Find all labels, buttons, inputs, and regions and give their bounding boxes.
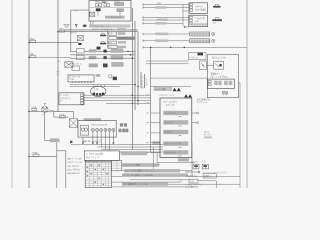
relay R4 bbox=[69, 119, 77, 127]
label out1 bbox=[122, 163, 159, 167]
connector circle 1 bbox=[212, 32, 215, 35]
meter unit box bbox=[208, 54, 239, 97]
wire b3 bbox=[130, 179, 189, 181]
wire into JB bbox=[71, 9, 89, 11]
relay contact gray bbox=[117, 9, 123, 12]
wire comb row 1 bbox=[71, 144, 163, 146]
speed sensor box bbox=[208, 79, 235, 88]
switch contacts bbox=[91, 128, 115, 131]
connector legs icon bbox=[223, 92, 228, 96]
wire 5A branch bbox=[29, 57, 70, 59]
connector icon 2 bbox=[215, 17, 219, 20]
node blob left bbox=[70, 141, 72, 143]
fan motor symbol bbox=[42, 104, 48, 113]
connector icon 1 bbox=[215, 4, 219, 7]
wire sensor feed bbox=[150, 77, 208, 79]
wire below igniter 1 bbox=[70, 84, 136, 86]
row connector marks bbox=[179, 116, 182, 156]
sub row 2 box bbox=[109, 37, 117, 40]
wire H2 bbox=[54, 116, 69, 118]
connector gray small bbox=[96, 74, 101, 77]
ground triangles 2 bbox=[184, 94, 192, 97]
connector pair gray bbox=[89, 64, 98, 68]
label tr2 bbox=[155, 6, 166, 8]
connector cluster gray bbox=[119, 123, 129, 132]
box igniter bbox=[68, 75, 94, 82]
bundle junction dots bbox=[132, 84, 139, 104]
heater relay box bbox=[189, 3, 208, 14]
relay coil dark bbox=[96, 8, 101, 11]
box row B bbox=[76, 55, 84, 59]
wire step bbox=[57, 150, 66, 152]
wire vert 192 bbox=[191, 143, 193, 176]
V3 diode box bbox=[65, 62, 73, 67]
pins igniter bbox=[72, 81, 91, 82]
ECU box bbox=[160, 98, 192, 158]
sub row 4 box bbox=[108, 45, 117, 48]
ground triangles bbox=[173, 88, 181, 91]
svg-text:ﾒｲﾝ: ﾒｲﾝ bbox=[109, 42, 112, 45]
junction into box2 bbox=[184, 26, 186, 28]
wire jog bbox=[45, 139, 57, 141]
terminal strip 2 bbox=[190, 32, 210, 36]
relay box small bbox=[200, 61, 207, 70]
wire up branch bbox=[56, 140, 58, 188]
connector dark oval bbox=[75, 24, 77, 28]
svg-text:点火ｺｲﾙ: 点火ｺｲﾙ bbox=[191, 160, 198, 163]
wire dist row 2 bbox=[84, 97, 151, 99]
wire bottom fuse branch bbox=[29, 155, 57, 157]
coil symbol 2 bbox=[202, 164, 208, 169]
ground component bbox=[189, 53, 207, 60]
ECU row 2 bbox=[163, 120, 188, 124]
label b2 bbox=[122, 173, 188, 176]
capacitor blob bbox=[78, 43, 81, 45]
svg-text:B AM1 ACC IG1 IG2 ST: B AM1 ACC IG1 IG2 ST bbox=[82, 140, 102, 143]
svg-text:ﾌｧﾝ: ﾌｧﾝ bbox=[42, 114, 45, 117]
noise condenser dark bbox=[103, 64, 108, 68]
label tr8 bbox=[155, 39, 168, 42]
box A/C bbox=[72, 66, 80, 71]
node at feed bbox=[70, 10, 72, 51]
distributor contacts bbox=[93, 93, 105, 96]
wire bottom long bbox=[112, 186, 199, 188]
svg-text:ｺﾝﾋﾟｭｰﾀ: ｺﾝﾋﾟｭｰﾀ bbox=[166, 103, 175, 107]
ECU feed rail bbox=[150, 47, 152, 153]
wire below igniter 2 bbox=[70, 85, 120, 87]
side table bbox=[112, 161, 122, 171]
terminal strip 3 bbox=[190, 39, 210, 43]
dark blob left bbox=[97, 47, 101, 50]
label on feed wire bbox=[117, 28, 126, 31]
wire branch down bbox=[53, 111, 55, 117]
coil symbol 1 bbox=[193, 164, 199, 169]
label fuse small mid-JB bbox=[102, 2, 106, 4]
svg-text:DLC1: DLC1 bbox=[204, 132, 210, 134]
ignition switch box bbox=[78, 120, 116, 137]
drop v1 bbox=[152, 147, 154, 171]
ECU row 1 bbox=[163, 111, 188, 115]
label above ECU bbox=[154, 87, 172, 91]
vertical harness text bbox=[141, 76, 149, 89]
box cooling unit bbox=[59, 93, 84, 105]
label tr7 bbox=[155, 33, 168, 36]
ECU right stubs bbox=[192, 113, 197, 123]
vertical drop tr bbox=[182, 5, 184, 27]
JB inner rail bbox=[89, 7, 131, 9]
svg-text:ﾘﾚｰ: ﾘﾚｰ bbox=[57, 73, 60, 76]
label right of resistor bbox=[121, 151, 147, 155]
row junction dots bbox=[127, 51, 133, 60]
wire bus ACC bbox=[57, 0, 59, 112]
defogger relay box bbox=[189, 15, 208, 27]
wire tr4 bbox=[143, 16, 189, 18]
wire fan down bbox=[44, 112, 46, 140]
svg-text:ﾌｧﾝ: ﾌｧﾝ bbox=[109, 46, 112, 49]
label jog bbox=[50, 138, 60, 142]
wire row C bbox=[70, 57, 135, 59]
wire table out 1 bbox=[122, 164, 160, 166]
wire dist row 4 bbox=[106, 102, 151, 104]
noise filter box bbox=[189, 179, 198, 183]
ECU row 5 bbox=[163, 150, 188, 154]
wire top right 2 bbox=[143, 7, 189, 9]
wire start ticks bbox=[142, 3, 144, 42]
svg-text:B ACC IG1 IG2 ST: B ACC IG1 IG2 ST bbox=[92, 123, 109, 126]
wire top right 3 bbox=[183, 10, 189, 12]
label b1 bbox=[124, 169, 180, 172]
ECU row 4 bbox=[163, 141, 188, 145]
wire to ground cp bbox=[146, 60, 189, 62]
wire bus IG left bbox=[28, 0, 30, 188]
wire 25A branch bbox=[58, 31, 138, 33]
drop v2 bbox=[156, 153, 158, 163]
connector on wire bbox=[49, 110, 54, 112]
ECU stubs bbox=[147, 95, 161, 153]
label P/W strip bbox=[90, 25, 131, 28]
wire tr7 bbox=[143, 33, 190, 35]
box row A bbox=[76, 49, 84, 53]
label tr6 bbox=[155, 22, 166, 24]
wire dist row 1 bbox=[84, 94, 151, 96]
connector gray 2 bbox=[112, 62, 124, 66]
wire comb row 3 bbox=[101, 149, 163, 151]
sensor cells bbox=[214, 81, 232, 85]
label ignition switch bbox=[84, 118, 102, 121]
junction label mid bbox=[153, 141, 160, 144]
wire comb row 4 bbox=[105, 151, 163, 153]
below ECU gray box bbox=[178, 158, 189, 161]
switch legs bbox=[83, 137, 113, 152]
wire bus B+ left bbox=[11, 0, 13, 188]
wire table out 4 bbox=[112, 181, 181, 183]
wire right bus 1 bbox=[246, 0, 248, 188]
key cylinder bbox=[80, 126, 89, 136]
sub row 3 box bbox=[108, 41, 116, 44]
junction dots bbox=[28, 42, 30, 157]
ECU row 3 bbox=[163, 130, 188, 134]
wire fan feed bbox=[29, 110, 73, 112]
terminal table bbox=[85, 161, 111, 188]
pin list text block bbox=[68, 157, 83, 175]
wire relay feed down bbox=[72, 111, 74, 118]
relay R3 bbox=[77, 36, 83, 41]
table marks bbox=[87, 165, 108, 185]
connector circle 2 bbox=[212, 39, 215, 42]
junction dot V3 bbox=[57, 31, 59, 33]
wire b4 bbox=[122, 183, 240, 185]
wire below ECU bbox=[157, 162, 195, 164]
wire table out 2 bbox=[122, 170, 192, 172]
sub row 1 box bbox=[108, 32, 116, 35]
wire table out 3 bbox=[112, 175, 241, 177]
wire fuse to relay bbox=[29, 42, 78, 44]
wire tr6 bbox=[143, 22, 183, 24]
label b4 bbox=[122, 183, 168, 186]
junction block J/B bbox=[89, 1, 131, 22]
dome icon 1 bbox=[102, 33, 105, 35]
sub rail bbox=[107, 30, 109, 49]
wire harness bundle bbox=[131, 8, 133, 150]
wire tr8 bbox=[143, 40, 190, 42]
pins cooling bbox=[81, 94, 84, 104]
wire top right 1 bbox=[143, 4, 189, 6]
wire filter out bbox=[198, 180, 216, 182]
wire right bus 2 bbox=[239, 94, 241, 188]
relay block bbox=[115, 3, 124, 6]
wire comb row 2 bbox=[97, 146, 163, 148]
distributor bbox=[91, 86, 106, 96]
relay R2 bbox=[90, 12, 95, 16]
wire mid 2 bbox=[150, 86, 191, 88]
dome icon 2 bbox=[102, 41, 105, 43]
wire row A bbox=[70, 50, 135, 52]
wire main feed bbox=[64, 29, 138, 31]
wire row B bbox=[70, 54, 135, 56]
wire down left bbox=[65, 151, 67, 188]
bottom right arrow note bbox=[185, 171, 200, 173]
wire mid right feed bbox=[143, 46, 247, 48]
label junction block bbox=[105, 16, 125, 19]
strip row in box2 bbox=[191, 23, 207, 25]
JB bottom ticks bbox=[90, 21, 92, 25]
label tr5 bbox=[157, 19, 168, 21]
coil symbol bbox=[109, 75, 112, 78]
coil dark box bbox=[113, 77, 117, 80]
wire dist row 3 bbox=[84, 100, 151, 102]
svg-text:B-W: B-W bbox=[157, 3, 161, 5]
resistor box bbox=[84, 151, 119, 160]
leg connector marks bbox=[82, 142, 114, 143]
ignition switch symbol bbox=[64, 24, 70, 27]
wire tr5 bbox=[143, 19, 189, 21]
starter relay box bbox=[214, 61, 224, 69]
svg-text:AM1 AM2 B2: AM1 AM2 B2 bbox=[68, 172, 81, 175]
distributor plug ticks bbox=[94, 85, 105, 87]
svg-text:ﾘﾚｰ: ﾘﾚｰ bbox=[58, 60, 61, 63]
wire sensor right bbox=[238, 82, 240, 84]
